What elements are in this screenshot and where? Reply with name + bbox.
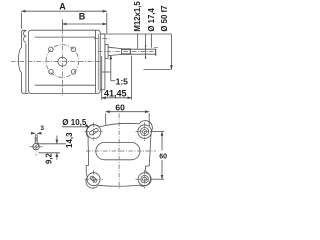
svg-text:Ø 17,4: Ø 17,4 [147, 8, 156, 32]
svg-text:3: 3 [40, 125, 44, 132]
svg-text:60: 60 [115, 102, 125, 112]
svg-text:9,2: 9,2 [45, 152, 54, 164]
svg-text:60: 60 [159, 154, 167, 161]
svg-text:Ø 10,5: Ø 10,5 [62, 118, 87, 127]
svg-text:A: A [59, 2, 66, 12]
svg-text:Ø 50 f7: Ø 50 f7 [160, 6, 169, 32]
svg-text:B: B [79, 11, 86, 21]
svg-text:1:5: 1:5 [116, 77, 129, 87]
svg-text:41,45: 41,45 [104, 89, 127, 99]
svg-text:14,3: 14,3 [65, 132, 74, 148]
svg-text:M12x1,5: M12x1,5 [133, 1, 142, 32]
